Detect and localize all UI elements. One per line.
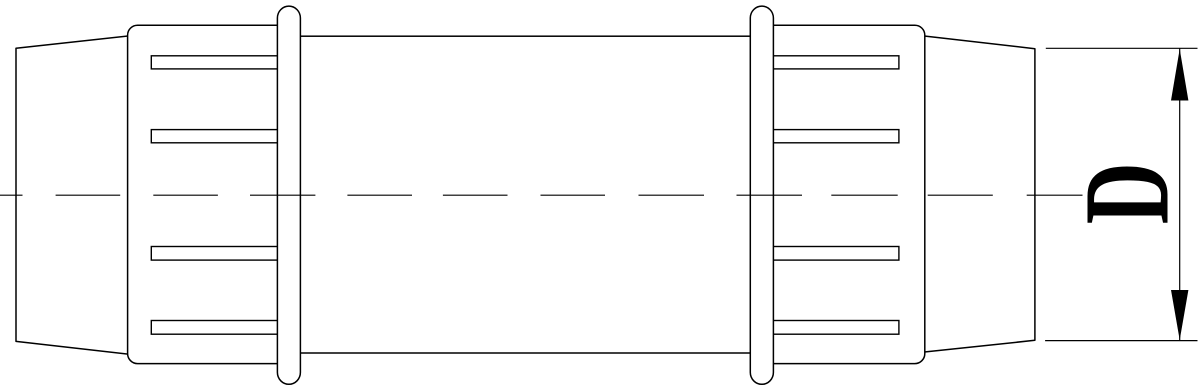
right taper (pipe stub) xyxy=(922,36,1035,353)
left compression nut xyxy=(128,25,289,363)
right nut grip slot 3 xyxy=(767,247,899,261)
right nut grip slot 2 xyxy=(767,130,899,143)
centerline (dash-dot axis) xyxy=(0,194,1083,196)
left flange ring (capsule) xyxy=(277,6,300,384)
dimension arrow bottom xyxy=(1171,290,1188,340)
dimension line D xyxy=(1179,48,1181,340)
right nut grip slot 4 xyxy=(767,321,899,335)
bottom extension line xyxy=(1045,340,1197,342)
right nut grip slot 1 xyxy=(767,56,899,69)
left nut grip slot 1 xyxy=(151,56,283,69)
left taper (pipe stub) xyxy=(16,36,130,355)
right flange ring (capsule) xyxy=(750,6,773,384)
right compression nut xyxy=(762,25,925,363)
left nut grip slot 3 xyxy=(151,247,283,261)
left nut grip slot 4 xyxy=(151,321,283,335)
left nut grip slot 2 xyxy=(151,130,283,143)
svg-text:D: D xyxy=(1059,162,1194,224)
dimension arrow top xyxy=(1171,49,1188,101)
top extension line xyxy=(1046,47,1198,49)
central body tube xyxy=(281,36,769,353)
